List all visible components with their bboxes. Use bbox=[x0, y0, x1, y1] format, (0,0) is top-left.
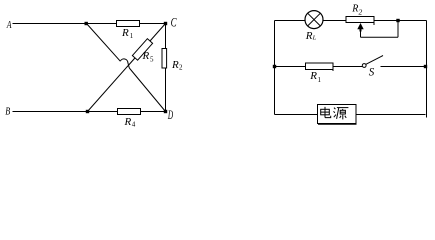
wire diagonal from top junction to D (segment 2) bbox=[129, 68, 165, 112]
svg-text:1: 1 bbox=[130, 32, 134, 40]
svg-text:D: D bbox=[167, 107, 173, 122]
bottom wire right bbox=[356, 114, 426, 116]
resistor R5 (tilted on diagonal) bbox=[132, 39, 152, 61]
power supply box bottom shade bbox=[318, 123, 357, 125]
junction on top wire bbox=[85, 22, 88, 25]
glyph dian (electric) bbox=[321, 107, 331, 118]
wire middle left to R1 bbox=[275, 66, 306, 68]
wire R1 to switch bbox=[333, 66, 362, 68]
slider stem bbox=[360, 28, 362, 32]
svg-text:R: R bbox=[309, 70, 317, 82]
svg-text:R: R bbox=[351, 4, 358, 15]
rheostat body right terminal stub bbox=[373, 16, 375, 25]
node C bbox=[164, 22, 167, 25]
svg-text:C: C bbox=[171, 15, 177, 30]
junction on bottom wire bbox=[86, 110, 89, 113]
wire R2 to D bbox=[165, 68, 167, 112]
switch pivot circle bbox=[362, 64, 366, 68]
junction dot middle right bbox=[424, 65, 427, 68]
svg-text:R: R bbox=[305, 30, 313, 42]
glyph yuan (source) bbox=[334, 108, 349, 120]
bottom wire left bbox=[275, 114, 318, 116]
right vertical wire bbox=[426, 21, 428, 118]
junction dot top right bbox=[396, 19, 399, 22]
wire switch to right bbox=[381, 66, 427, 68]
resistor R2 (left circuit, vertical) bbox=[162, 49, 167, 69]
wire top-left of right circuit bbox=[275, 20, 306, 22]
svg-text:S: S bbox=[369, 64, 375, 78]
node D bbox=[164, 110, 167, 113]
slider loop horizontal bbox=[361, 36, 399, 38]
svg-text:R: R bbox=[121, 27, 129, 39]
svg-text:5: 5 bbox=[150, 56, 154, 64]
wire B to R4 (bottom) bbox=[13, 111, 119, 113]
lamp cross stroke 1 bbox=[308, 13, 321, 26]
wire lamp to R2 bbox=[323, 20, 346, 22]
switch blade bbox=[366, 56, 383, 65]
svg-text:A: A bbox=[6, 19, 12, 31]
svg-text:R: R bbox=[171, 59, 179, 71]
wire R4 to D bbox=[141, 111, 166, 113]
slider loop vertical bbox=[397, 21, 399, 38]
rheostat slider arrow bbox=[357, 23, 363, 29]
wire hop over crossing bbox=[120, 59, 129, 68]
R1 right terminal stub bbox=[332, 63, 334, 72]
svg-text:1: 1 bbox=[318, 76, 322, 84]
resistor R2 (rheostat body) bbox=[346, 17, 374, 23]
power supply box bbox=[318, 105, 357, 124]
svg-text:4: 4 bbox=[132, 121, 136, 129]
svg-text:R: R bbox=[142, 50, 150, 62]
wire R1 to C bbox=[140, 23, 166, 25]
svg-text:B: B bbox=[5, 105, 10, 117]
wire R2 to top right corner bbox=[374, 20, 427, 22]
wire A to C (top) bbox=[13, 23, 118, 25]
resistor R1 bbox=[117, 21, 140, 27]
svg-text:R: R bbox=[124, 116, 132, 128]
resistor R4 bbox=[118, 109, 141, 115]
resistor R1 (right circuit) bbox=[306, 63, 334, 70]
junction dot middle left bbox=[273, 65, 276, 68]
wire diagonal from bottom junction to C bbox=[88, 24, 166, 112]
svg-text:2: 2 bbox=[359, 7, 363, 16]
svg-text:2: 2 bbox=[179, 64, 183, 72]
lamp RL bbox=[305, 11, 323, 29]
left vertical wire bbox=[274, 21, 276, 115]
wire C to R2 bbox=[165, 24, 167, 50]
svg-text:L: L bbox=[312, 34, 317, 41]
wire diagonal from top junction to D (segment 1) bbox=[87, 24, 121, 62]
lamp cross stroke 2 bbox=[308, 13, 321, 26]
